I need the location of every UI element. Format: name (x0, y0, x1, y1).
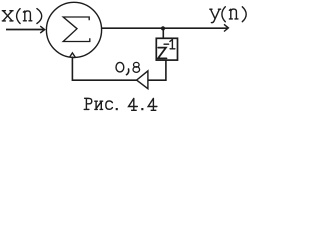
node 1 of exponent (170, 40, 175, 49)
node caption Ris. 4.4 (84, 98, 157, 110)
node minus of exponent (164, 43, 169, 45)
node x(n) input label (2, 9, 41, 24)
node z glyph in box (158, 48, 167, 59)
node y(n) output label (210, 7, 246, 23)
node junction dot (161, 26, 165, 30)
op-amp summator circle (46, 2, 101, 57)
wire input line (6, 29, 44, 31)
wire input arrowhead (40, 26, 45, 33)
wire output line (102, 27, 228, 29)
wire delay box to gain triangle (149, 60, 166, 80)
wire output arrowhead (224, 24, 228, 31)
wire feedback arrowhead (70, 53, 76, 57)
wire feedback line to summator (72, 57, 136, 81)
wire junction to delay box (162, 29, 164, 39)
node sigma symbol (63, 17, 90, 42)
node gain value label 0,8 (116, 62, 140, 74)
transistor gain triangle (137, 71, 148, 89)
block z^-1 delay box (156, 38, 177, 60)
